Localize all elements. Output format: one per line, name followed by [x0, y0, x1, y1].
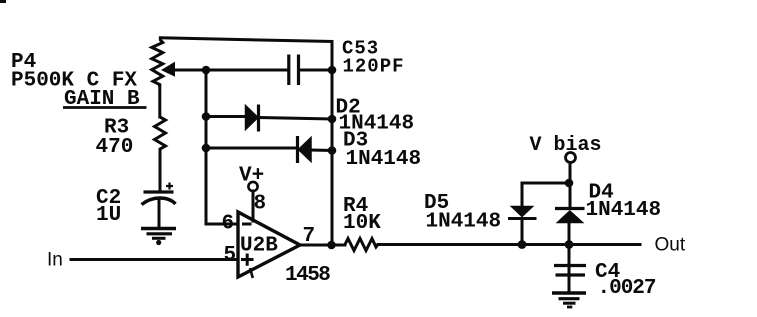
- wire right feedback bus: [331, 42, 334, 246]
- junction D5 output: [518, 240, 527, 249]
- wire op-amp output: [300, 244, 345, 247]
- wire V+ lead: [252, 191, 255, 221]
- diode D3: [298, 136, 312, 163]
- svg-text:V: V: [530, 134, 542, 157]
- svg-text:10K: 10K: [343, 212, 381, 235]
- wire top feedback: [160, 38, 332, 42]
- wire V bias lead: [569, 163, 572, 208]
- svg-text:1N4148: 1N4148: [426, 211, 502, 234]
- P4 gain label: [63, 88, 147, 111]
- svg-text:1U: 1U: [96, 204, 121, 227]
- svg-text:1N4148: 1N4148: [586, 199, 662, 222]
- wire D2 row right: [259, 118, 332, 120]
- capacitor C4: [554, 266, 586, 276]
- junction output node: [327, 241, 336, 250]
- svg-text:1N4148: 1N4148: [346, 148, 422, 171]
- wire D2 row left: [206, 115, 245, 118]
- junction D3 right: [328, 146, 337, 155]
- wire out line to C4: [568, 245, 571, 292]
- capacitor C2: [142, 183, 176, 205]
- svg-text:6: 6: [222, 213, 235, 236]
- junction C53 right: [328, 66, 337, 75]
- junction D2 left: [202, 112, 211, 121]
- V bias terminal: [566, 153, 576, 163]
- wire R4 to Out: [378, 243, 640, 246]
- wire pin 6 stub: [206, 223, 238, 226]
- junction D2 right: [328, 115, 337, 124]
- svg-text:.0027: .0027: [598, 277, 656, 300]
- wire pot wiper to node A: [174, 69, 206, 72]
- svg-text:bias: bias: [554, 134, 602, 157]
- ground (C2): [141, 229, 176, 246]
- wire C2 to ground: [158, 201, 161, 228]
- wire D3 row left: [206, 147, 297, 150]
- wire C53 to right bus: [300, 69, 332, 72]
- resistor R3: [155, 117, 166, 150]
- V+ terminal: [248, 182, 257, 191]
- svg-text:In: In: [47, 250, 63, 271]
- svg-text:Out: Out: [655, 235, 686, 256]
- wire R3 to C2: [159, 150, 162, 190]
- svg-text:470: 470: [96, 136, 134, 159]
- svg-text:120PF: 120PF: [343, 56, 405, 78]
- svg-text:5: 5: [224, 244, 237, 267]
- wire pot to R3: [158, 85, 161, 117]
- wire node A to C53: [206, 69, 287, 72]
- V bias label: [530, 134, 602, 157]
- capacitor C53: [289, 55, 299, 86]
- diode D4: [555, 209, 585, 223]
- wire bias node to D5: [522, 183, 570, 206]
- wire left feedback bus: [205, 70, 208, 224]
- diode D5: [508, 207, 537, 219]
- wire D5 to out line: [521, 219, 524, 245]
- wire D4 to out line: [568, 222, 571, 245]
- potentiometer P4: [152, 38, 175, 87]
- svg-text:8: 8: [254, 193, 267, 216]
- svg-text:1458: 1458: [285, 264, 330, 287]
- resistor R4: [345, 239, 378, 251]
- junction V bias node: [565, 179, 574, 188]
- node A junction (wiper): [202, 66, 211, 75]
- diode D2: [246, 105, 259, 132]
- svg-text:7: 7: [303, 225, 316, 248]
- op-amp U2B: [238, 212, 300, 278]
- svg-text:U2B: U2B: [240, 235, 278, 258]
- wire In to pin 5: [71, 258, 238, 261]
- ground (C4): [552, 293, 586, 307]
- junction D4 output: [565, 240, 574, 249]
- junction D3 left: [202, 144, 211, 153]
- svg-text:V+: V+: [239, 165, 264, 188]
- wire D3 row right: [311, 149, 332, 153]
